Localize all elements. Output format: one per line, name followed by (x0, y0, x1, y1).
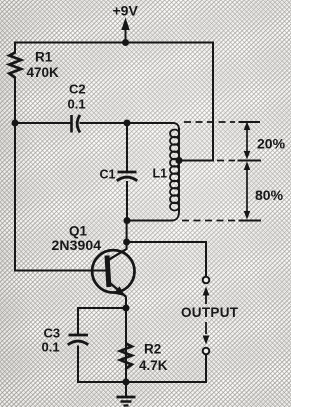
dashed line tap (217, 160, 235, 162)
svg-text:0.1: 0.1 (42, 340, 60, 355)
wire C3 branch top (78, 308, 126, 334)
wire base lead (15, 270, 106, 272)
wire C1 branch lower (126, 182, 128, 221)
wire output bottom return (126, 355, 206, 383)
wire left rail lower (14, 123, 16, 271)
arrow down to output bottom (203, 322, 210, 345)
node top rail junction (122, 39, 129, 46)
wire right vertical (212, 43, 214, 161)
capacitor C1 (117, 172, 137, 181)
svg-text:2N3904: 2N3904 (52, 237, 102, 253)
wire mid line left of C2 (15, 122, 71, 124)
svg-text:L1: L1 (153, 167, 168, 181)
inductor L1 (170, 123, 179, 221)
+9V arrow (121, 18, 129, 43)
wire tap line solid (179, 160, 213, 162)
svg-text:0.1: 0.1 (68, 97, 86, 112)
dashed line bottom (182, 220, 235, 222)
node bottom junction (123, 379, 130, 386)
ground (117, 382, 136, 406)
wire emitter down (125, 298, 127, 383)
svg-text:+9V: +9V (113, 3, 139, 19)
dimension arrow 20% span (244, 122, 251, 160)
svg-text:C1: C1 (100, 168, 116, 182)
node left mid junction (12, 120, 19, 127)
transistor Q1 (92, 249, 134, 297)
capacitor C2 (72, 115, 81, 133)
arrow up to output top (203, 287, 210, 305)
wire C1 branch upper (126, 123, 128, 171)
node tank bottom junction (124, 217, 131, 224)
wire left rail upper (14, 43, 16, 124)
wire C3 branch bottom (78, 347, 126, 383)
wire collector to output (127, 242, 206, 277)
resistor R1 (9, 53, 21, 78)
node L1 tap (176, 157, 183, 164)
node emitter C3 junction (123, 305, 130, 312)
svg-text:4.7K: 4.7K (139, 358, 168, 373)
svg-text:20%: 20% (257, 136, 286, 152)
svg-text:R1: R1 (35, 50, 53, 65)
capacitor C3 (68, 335, 88, 345)
terminal output top (203, 277, 210, 284)
svg-text:80%: 80% (255, 187, 284, 203)
node tank top junction (124, 120, 131, 127)
svg-text:C3: C3 (44, 326, 61, 341)
resistor R2 (120, 344, 132, 369)
terminal output bottom (203, 348, 210, 355)
svg-text:OUTPUT: OUTPUT (181, 305, 239, 320)
wire bottom tank line (127, 220, 172, 222)
node collector junction (123, 239, 130, 246)
wire tank to collector (126, 221, 128, 249)
dimension arrow 80% span (244, 162, 251, 220)
wire top rail (15, 42, 213, 44)
dashed line top (184, 121, 235, 123)
svg-text:C2: C2 (69, 82, 86, 97)
svg-text:R2: R2 (144, 342, 161, 357)
svg-text:470K: 470K (27, 65, 60, 80)
wire mid line right of C2 (81, 122, 174, 124)
